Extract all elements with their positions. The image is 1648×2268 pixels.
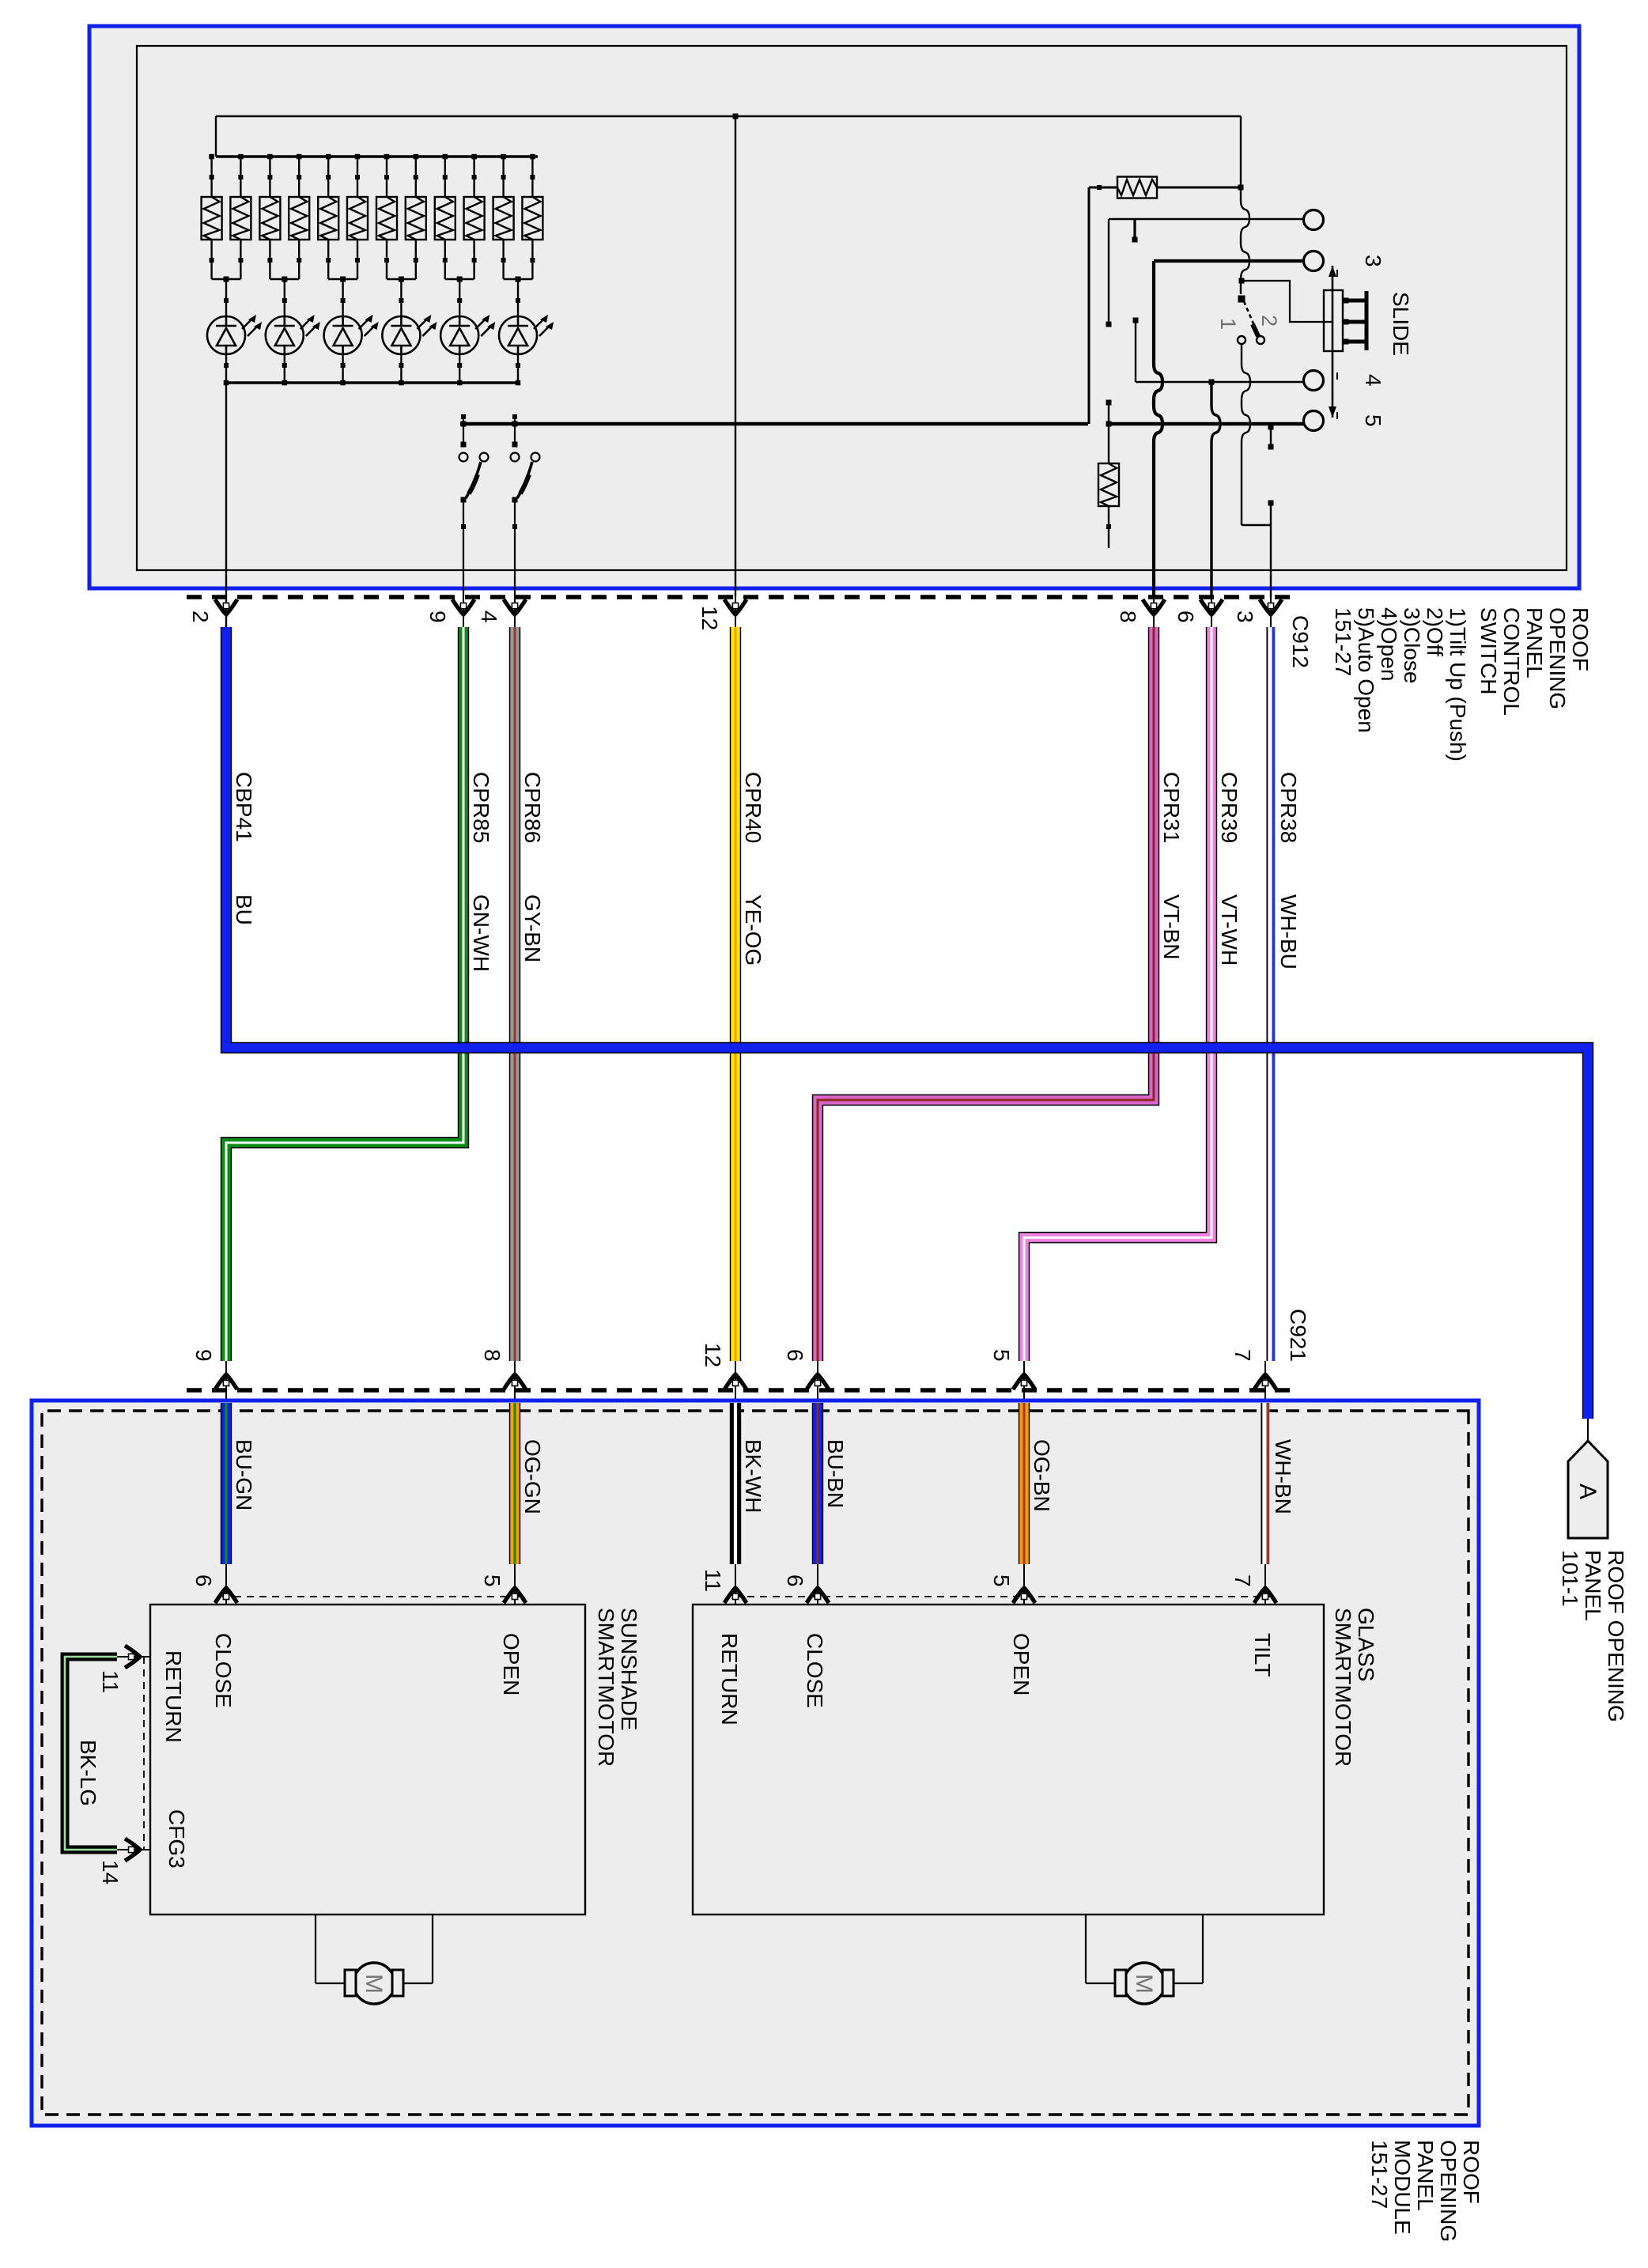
wire: pin 12 feed — [735, 116, 736, 597]
resistor R_B — [1098, 463, 1119, 506]
wire: resistor branch 6 — [357, 157, 358, 197]
svg-text:CPR38: CPR38 — [1276, 772, 1301, 843]
wire CBP41 BU (pin 2 to roof opening panel) — [226, 627, 1588, 1419]
svg-text:VT-BN: VT-BN — [1159, 894, 1184, 959]
svg-text:CPR39: CPR39 — [1217, 772, 1242, 843]
svg-text:14: 14 — [98, 1860, 123, 1884]
push switch: open (pin 9) — [463, 417, 464, 444]
wire: LED pair join 6 — [504, 278, 533, 280]
svg-text:WH-BU: WH-BU — [1276, 894, 1301, 970]
svg-text:RETURN: RETURN — [717, 1633, 742, 1726]
wire: pin 3 C912 pass-through — [1270, 588, 1272, 627]
wire BK-LG loop — [65, 1657, 117, 1850]
svg-text:101-1: 101-1 — [1558, 1550, 1582, 1607]
svg-text:151-27: 151-27 — [1367, 2140, 1392, 2209]
svg-text:4)Open: 4)Open — [1377, 607, 1401, 681]
svg-text:7: 7 — [1230, 1349, 1255, 1362]
resistor R_A — [1117, 177, 1157, 198]
wire CPR86 GY-BN (pin 4 to C921 pin 8) — [509, 627, 520, 1361]
svg-text:5: 5 — [989, 1574, 1014, 1587]
svg-text:5: 5 — [989, 1349, 1014, 1362]
wire OG-GN (module) — [509, 1403, 520, 1564]
wire: wiper link to detent 2 — [1242, 281, 1332, 322]
svg-text:4: 4 — [477, 610, 501, 623]
resistor R9 (LED ballast) — [435, 197, 455, 240]
svg-text:1)Tilt Up (Push): 1)Tilt Up (Push) — [1446, 607, 1470, 762]
svg-text:5: 5 — [480, 1574, 505, 1587]
pin 3 arrow (C912) — [1260, 599, 1282, 614]
resistor R10 (LED ballast) — [464, 197, 485, 240]
pin 4 arrow (C912) — [504, 599, 526, 614]
svg-text:WH-BN: WH-BN — [1271, 1439, 1295, 1514]
motor M (glass) — [1086, 1915, 1203, 1983]
svg-text:VT-WH: VT-WH — [1217, 894, 1242, 966]
wire: resistor branch 8 — [415, 157, 417, 197]
wire: pin 8 C912 pass-through — [1153, 588, 1155, 627]
wire: LED 3 to return bus — [342, 354, 343, 383]
wire: resistor branch 4 — [298, 157, 300, 197]
slide contact stub a — [1133, 219, 1136, 240]
wire CPR31 VT-BN (pin 8 to C921 pin 6) — [818, 627, 1154, 1361]
wire: LED pair join 5 — [445, 278, 474, 280]
svg-text:ROOF OPENING: ROOF OPENING — [1604, 1550, 1628, 1722]
pin 12 arrow (C921) — [724, 1374, 747, 1389]
svg-text:ROOF: ROOF — [1568, 607, 1593, 671]
wire: resistor branch 1 — [210, 157, 212, 197]
svg-text:3: 3 — [1361, 255, 1385, 267]
resistor R12 (LED ballast) — [522, 197, 542, 240]
pin 5 arrow (C921) — [1013, 1374, 1035, 1389]
wire: LED feed bus — [216, 155, 538, 157]
resistor R7 (LED ballast) — [376, 197, 397, 240]
svg-text:SWITCH: SWITCH — [1476, 607, 1501, 694]
svg-text:12: 12 — [697, 606, 722, 630]
sunshade pins 11/14 dashed line — [143, 1657, 145, 1850]
wire: pin 2 illumination return — [225, 383, 227, 627]
wire: LED pair join 3 — [328, 278, 357, 280]
LED D1 (illumination) — [207, 316, 257, 354]
wire CPR39 VT-WH (pin 6 to C921 pin 5) — [1024, 627, 1211, 1361]
svg-text:SMARTMOTOR: SMARTMOTOR — [1331, 1608, 1355, 1767]
svg-text:5)Auto Open: 5)Auto Open — [1354, 607, 1378, 733]
svg-text:CPR31: CPR31 — [1159, 772, 1184, 843]
resistor R5 (LED ballast) — [318, 197, 338, 240]
resistor R_B lead — [1108, 403, 1109, 464]
svg-text:CLOSE: CLOSE — [211, 1633, 236, 1708]
svg-text:8: 8 — [1116, 610, 1140, 623]
resistor R1 (LED ballast) — [202, 197, 222, 240]
wire: feed to wiper pivot (hops over contact lines) — [1241, 116, 1249, 294]
wire CPR85 GN-WH (pin 9 to C921 pin 9) — [226, 627, 463, 1361]
wire: resistor branch 11 — [502, 157, 504, 197]
resistor R8 (LED ballast) — [406, 197, 426, 240]
wire: resistor branch 5 — [327, 157, 329, 197]
svg-text:CPR40: CPR40 — [741, 772, 765, 843]
motor connector dashed line (glass) — [729, 1596, 1273, 1597]
slide detent comb — [1365, 291, 1369, 350]
wire: resistor branch 12 — [531, 157, 533, 197]
wire: pin 3 riser — [1242, 524, 1271, 526]
svg-text:6: 6 — [783, 1349, 807, 1362]
svg-text:9: 9 — [425, 610, 450, 623]
pin 9 arrow (C912) — [452, 599, 474, 614]
svg-text:11: 11 — [98, 1670, 123, 1693]
switch wiper pivot — [1238, 296, 1245, 303]
wire: contact 4 branch — [1136, 381, 1304, 383]
wire: pin 8 C921 pass-through — [514, 1361, 516, 1403]
LED D3 (illumination) — [324, 316, 374, 354]
motor pin 5 arrow — [1013, 1588, 1035, 1603]
svg-text:ROOF: ROOF — [1459, 2140, 1484, 2204]
sunshade smartmotor box — [150, 1605, 585, 1915]
push switch: close (pin 4) — [514, 417, 516, 444]
svg-text:OG-GN: OG-GN — [520, 1439, 545, 1514]
resistor R6 (LED ballast) — [347, 197, 368, 240]
slide actuator — [1324, 290, 1343, 351]
svg-text:TILT: TILT — [1250, 1633, 1275, 1676]
svg-text:M: M — [1131, 1974, 1157, 1994]
svg-text:PANEL: PANEL — [1522, 607, 1547, 679]
pin 11 arrow (sunshade) — [125, 1646, 140, 1668]
switch wiper arm (push 1-2) — [1244, 301, 1257, 333]
motor connector dashed line (sunshade) — [222, 1596, 520, 1597]
svg-text:OPEN: OPEN — [499, 1633, 524, 1695]
svg-text:SUNSHADE: SUNSHADE — [617, 1608, 641, 1731]
LED D2 (illumination) — [266, 316, 316, 354]
resistor R4 (LED ballast) — [289, 197, 309, 240]
wire: pin 5 C921 pass-through — [1023, 1361, 1025, 1403]
svg-text:GY-BN: GY-BN — [520, 894, 545, 962]
wire: contact 1 branch — [1109, 218, 1304, 220]
pin 9 arrow (C921) — [215, 1374, 237, 1389]
roof opening panel module box — [32, 1400, 1479, 2126]
svg-text:OPENING: OPENING — [1545, 607, 1570, 709]
motor pin 11 arrow — [724, 1588, 747, 1603]
svg-text:1: 1 — [1216, 318, 1240, 330]
pin 6 arrow (C921) — [807, 1374, 829, 1389]
pin 7 arrow (C921) — [1254, 1374, 1276, 1389]
svg-text:5: 5 — [1361, 414, 1385, 427]
pin 8 arrow (C921) — [504, 1374, 526, 1389]
svg-text:CLOSE: CLOSE — [803, 1633, 827, 1708]
svg-text:8: 8 — [480, 1349, 505, 1362]
svg-text:3: 3 — [1233, 610, 1257, 623]
slide switch contacts — [1304, 210, 1324, 230]
connector C912 — [182, 595, 1290, 599]
svg-text:2)Off: 2)Off — [1423, 607, 1447, 656]
wire: LED 6 to return bus — [517, 354, 519, 383]
switch fixed contact (pos 1) — [1238, 336, 1245, 344]
svg-text:CBP41: CBP41 — [232, 772, 256, 842]
svg-text:4: 4 — [1361, 374, 1385, 387]
wire: LED pair join 4 — [387, 278, 416, 280]
svg-text:2: 2 — [188, 610, 213, 623]
wire: pin 8 branch (hops) — [1154, 261, 1162, 597]
motor pin 6 arrow — [807, 1588, 829, 1603]
module dashed outline — [42, 1411, 1468, 2115]
svg-text:MODULE: MODULE — [1390, 2140, 1415, 2235]
svg-text:2: 2 — [1257, 315, 1281, 327]
wire: resistor branch 9 — [444, 157, 446, 197]
svg-text:CONTROL: CONTROL — [1499, 607, 1524, 716]
wire: main feed vertical — [216, 115, 1241, 117]
svg-text:BU-GN: BU-GN — [232, 1439, 256, 1510]
wire BU-BN (module) — [812, 1403, 823, 1564]
wire: LED pair join 1 — [212, 278, 241, 280]
wire: LED 5 to return bus — [459, 354, 460, 383]
wire: pin 4 C912 pass-through — [514, 588, 516, 627]
svg-text:12: 12 — [701, 1343, 725, 1367]
wire OG-BN (module) — [1019, 1403, 1030, 1564]
roof opening panel control switch box — [89, 26, 1579, 588]
wire: pin 6 C912 pass-through — [1211, 588, 1212, 627]
glass smartmotor box — [693, 1605, 1324, 1915]
wire: pin 9 C921 pass-through — [225, 1361, 227, 1403]
wire BK-WH (module) — [730, 1403, 741, 1564]
wire: LED 2 to return bus — [284, 354, 285, 383]
off-page connector A — [1568, 1441, 1608, 1538]
resistor R2 (LED ballast) — [230, 197, 251, 240]
svg-text:SLIDE: SLIDE — [1389, 292, 1413, 356]
svg-text:7: 7 — [1230, 1574, 1255, 1587]
svg-text:M: M — [361, 1974, 387, 1994]
resistor R3 (LED ballast) — [259, 197, 280, 240]
svg-text:GLASS: GLASS — [1354, 1608, 1378, 1681]
resistor R_A lead — [1157, 187, 1241, 189]
wire: LED 4 to return bus — [400, 354, 402, 383]
svg-text:OG-BN: OG-BN — [1030, 1439, 1054, 1512]
wire: R_A to bus — [1089, 187, 1117, 189]
svg-text:SMARTMOTOR: SMARTMOTOR — [594, 1608, 618, 1767]
svg-text:11: 11 — [701, 1569, 725, 1592]
wire: feed riser — [215, 116, 217, 157]
svg-text:A: A — [1574, 1484, 1601, 1499]
svg-text:BU-BN: BU-BN — [823, 1439, 848, 1508]
svg-text:C921: C921 — [1286, 1309, 1310, 1362]
wire: resistor branch 3 — [269, 157, 270, 197]
wire: contact 1 to pin 3 branch (hops) — [1242, 345, 1250, 525]
switch common bus — [1107, 422, 1304, 426]
svg-text:9: 9 — [191, 1349, 216, 1362]
svg-text:CFG3: CFG3 — [164, 1809, 189, 1869]
switch inner outline — [137, 46, 1567, 570]
motor pin 6 arrow — [215, 1588, 237, 1603]
svg-text:PANEL: PANEL — [1413, 2140, 1438, 2211]
slide contact stub b — [1270, 425, 1272, 447]
wire: resistor branch 10 — [473, 157, 474, 197]
svg-text:RETURN: RETURN — [161, 1650, 186, 1743]
pin 12 arrow (C912) — [724, 599, 747, 614]
wire: lead to off-page connector A — [1587, 1419, 1589, 1441]
wire: pin 6 C921 pass-through — [817, 1361, 818, 1403]
wire BU-GN (module) — [221, 1403, 232, 1564]
wire: LED 1 to return bus — [225, 354, 227, 383]
svg-text:C912: C912 — [1288, 615, 1313, 668]
pin 2 arrow (C912) — [215, 599, 237, 614]
LED D5 (illumination) — [440, 316, 490, 354]
wire CPR38 WH-BU (pin 3 to C921 pin 7) — [1266, 627, 1275, 1361]
wire CPR40 YE-OG (pin 12 to C921 pin 12) — [730, 627, 741, 1361]
svg-text:6: 6 — [1174, 610, 1198, 623]
LED D6 (illumination) — [499, 316, 549, 354]
svg-text:BK-LG: BK-LG — [76, 1740, 100, 1806]
wire: pin 2 C912 pass-through — [225, 588, 227, 627]
wire: LED pair join 2 — [270, 278, 299, 280]
wire: pin 3 exit — [1270, 503, 1272, 597]
wire WH-BN (module) — [1261, 1403, 1270, 1564]
wire: pin 11 return stub — [115, 1656, 150, 1658]
wire: pin 6 branch (hop over bus) — [1211, 382, 1220, 597]
svg-text:BU: BU — [232, 894, 256, 925]
svg-text:BK-WH: BK-WH — [741, 1439, 765, 1513]
svg-text:CPR86: CPR86 — [520, 772, 545, 843]
wire: pin 12 C912 pass-through — [735, 588, 736, 627]
svg-text:OPENING: OPENING — [1436, 2140, 1461, 2242]
wire: pin 14 cfg3 stub — [115, 1849, 150, 1850]
svg-text:3)Close: 3)Close — [1400, 607, 1424, 683]
svg-text:YE-OG: YE-OG — [741, 894, 765, 966]
motor M (sunshade) — [316, 1915, 433, 1983]
motor pin 5 arrow — [504, 1588, 526, 1603]
wire: pin 7 C921 pass-through — [1264, 1361, 1266, 1403]
wire: pin 9 C912 pass-through — [463, 588, 464, 627]
svg-text:151-27: 151-27 — [1331, 607, 1355, 676]
pin 8 arrow (C912) — [1143, 599, 1165, 614]
resistor R11 (LED ballast) — [493, 197, 514, 240]
svg-text:PANEL: PANEL — [1581, 1550, 1605, 1621]
pin 14 arrow (sunshade) — [125, 1839, 140, 1861]
wire: resistor branch 2 — [240, 157, 241, 197]
LED D4 (illumination) — [382, 316, 432, 354]
slide wiper bar — [1332, 266, 1334, 418]
wire: LED return bus — [226, 381, 518, 384]
wire: pin 12 C921 pass-through — [735, 1361, 736, 1403]
svg-text:CPR85: CPR85 — [469, 772, 493, 843]
svg-text:6: 6 — [191, 1574, 216, 1587]
node: R_A tap junction — [1238, 185, 1244, 191]
connector C921 — [182, 1388, 1290, 1392]
motor pin 7 arrow — [1254, 1588, 1276, 1603]
svg-text:OPEN: OPEN — [1009, 1633, 1034, 1695]
pin 6 arrow (C912) — [1200, 599, 1223, 614]
wire: contact 2 branch (thick) — [1154, 259, 1304, 263]
wire: resistor branch 7 — [386, 157, 387, 197]
svg-text:6: 6 — [783, 1574, 807, 1587]
svg-text:GN-WH: GN-WH — [469, 894, 493, 972]
